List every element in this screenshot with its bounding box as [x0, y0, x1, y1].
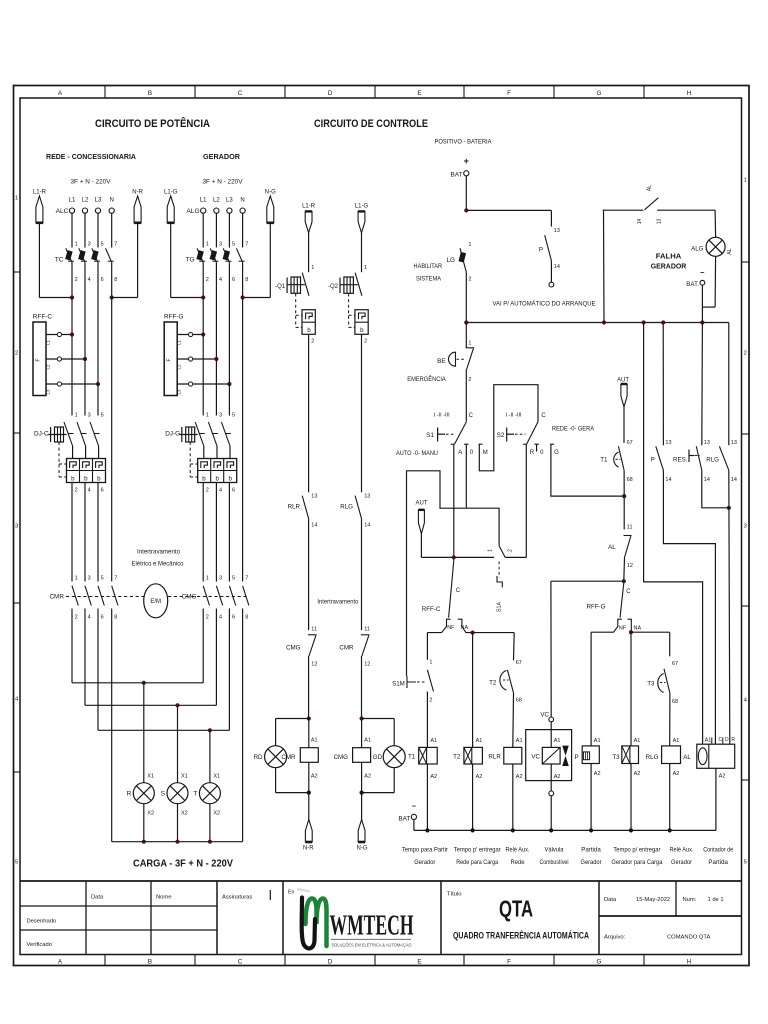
wire VC into box: [550, 722, 552, 748]
terminal on RFF-G tap L3: [189, 382, 193, 386]
svg-text:5: 5: [15, 859, 18, 865]
svg-text:L3: L3: [95, 198, 102, 204]
switch LG blade: [460, 248, 466, 272]
wire pole 1 below contactor: [71, 609, 73, 683]
svg-text:BAT: BAT: [398, 815, 410, 822]
selector S1 blade: [455, 422, 467, 444]
svg-text:VC: VC: [531, 754, 540, 761]
svg-text:2: 2: [15, 350, 18, 356]
svg-text:L2: L2: [46, 364, 51, 369]
wire to RD lamp top: [276, 718, 309, 720]
svg-text:14: 14: [665, 477, 671, 483]
wire S1M to T1 coil: [426, 692, 428, 748]
wire AL down: [623, 558, 626, 582]
junction main bus left: [464, 320, 468, 324]
svg-text:3: 3: [15, 523, 18, 529]
wire S1-A down: [453, 444, 455, 560]
junction lamp T neutral: [208, 840, 212, 844]
P inner hatch2: [587, 752, 589, 760]
svg-text:Rede: Rede: [511, 860, 526, 866]
svg-text:E/M: E/M: [150, 599, 161, 605]
coil T3: [622, 746, 639, 764]
svg-text:5: 5: [232, 242, 235, 248]
wire pole 2 below contactor: [215, 609, 217, 706]
svg-text:b: b: [97, 475, 101, 482]
junction rffg NA: [629, 630, 633, 634]
svg-text:Intertravamento: Intertravamento: [137, 550, 181, 556]
wire pole 1 down: [71, 262, 73, 297]
svg-text:1: 1: [488, 549, 494, 552]
wire P coil to bus: [590, 764, 592, 831]
DJ-C trip dash b: [59, 476, 67, 478]
svg-text:4: 4: [88, 615, 91, 621]
svg-text:2: 2: [744, 350, 747, 356]
svg-text:1: 1: [206, 242, 209, 248]
contact seat: [81, 260, 87, 262]
wire pole 3 below contactor: [228, 609, 230, 731]
wire RFF-G tap L1: [177, 334, 203, 336]
T1 X b: [419, 747, 427, 764]
control bus: [466, 322, 729, 324]
wire batminus falha down: [701, 285, 703, 322]
counter divider: [708, 744, 710, 768]
svg-text:S: S: [161, 791, 166, 798]
junction RFF-G tap L2: [214, 357, 218, 361]
svg-text:L1: L1: [69, 198, 76, 204]
svg-text:A1: A1: [705, 737, 712, 743]
footer column tick: [284, 955, 286, 966]
svg-text:3F + N - 220V: 3F + N - 220V: [71, 180, 111, 186]
relay RFF-G body: [164, 322, 177, 396]
wire pole 2 down: [84, 262, 86, 359]
wire N-R drop: [137, 223, 139, 298]
T2 timer arc: [500, 671, 507, 691]
assinaturas cursor mark: [269, 890, 271, 900]
terminal BAT- falha: [700, 280, 705, 285]
DJ-G pole 3 blade: [221, 422, 230, 446]
svg-text:C: C: [469, 413, 474, 419]
svg-text:REDE -0- GERA: REDE -0- GERA: [552, 427, 594, 433]
svg-text:G: G: [554, 450, 559, 456]
header column tick: [463, 86, 465, 99]
DJ-C actuator axis: [48, 434, 66, 436]
svg-text:12: 12: [627, 563, 633, 569]
wire N-G drop: [269, 223, 271, 298]
svg-text:L1-R: L1-R: [302, 204, 316, 210]
svg-text:13: 13: [554, 228, 560, 234]
T2 arc tick: [503, 679, 509, 681]
junction RLG negbus: [668, 828, 672, 832]
wire pole 1 down: [202, 262, 204, 297]
svg-text:5: 5: [232, 413, 235, 419]
svg-text:A2: A2: [311, 774, 318, 780]
svg-text:P: P: [575, 754, 579, 761]
wire RLR coil to bus: [512, 764, 514, 830]
wire pole 1 below contactor: [202, 609, 204, 683]
data num divider: [675, 881, 677, 916]
svg-text:AUT: AUT: [617, 378, 629, 384]
svg-text:BE: BE: [437, 358, 446, 365]
wire BAT+ down: [465, 176, 467, 210]
contactor CMG pole 4 blade: [243, 586, 249, 606]
svg-text:Relé Aux.: Relé Aux.: [506, 848, 530, 854]
BE mushroom head: [449, 352, 456, 366]
junction A-line bus557: [452, 555, 456, 559]
svg-text:A2: A2: [364, 774, 371, 780]
wire L1-G feed down: [361, 233, 363, 272]
footer column tick: [104, 955, 106, 966]
svg-text:5: 5: [232, 576, 235, 582]
wire falha left rise: [603, 210, 606, 322]
coil P partida: [582, 746, 599, 764]
wire AUT to bus557: [420, 534, 422, 558]
wire L2 down to switch: [215, 213, 217, 247]
S2 link dashes: [515, 433, 526, 435]
DJ-G actuator box: [186, 427, 195, 442]
T3 divider: [629, 746, 631, 764]
wire GD lamp to node: [362, 792, 395, 794]
feeder bus left: [171, 297, 204, 299]
wire falha top left: [603, 209, 644, 211]
wire P to counter C: [663, 470, 715, 744]
wire pole 3 below contactor: [97, 609, 99, 731]
junction phase T lamp: [208, 728, 212, 732]
svg-text:L2: L2: [177, 364, 182, 369]
wire lamp to node: [276, 792, 309, 794]
svg-text:R: R: [530, 450, 535, 456]
wire pole 3 to overload: [229, 446, 231, 459]
DJ-G trip dash b: [190, 476, 198, 478]
wire L1 down: [71, 298, 73, 335]
wire pole 1 down to contactor: [71, 483, 73, 582]
svg-text:6: 6: [101, 615, 104, 621]
svg-text:5: 5: [101, 576, 104, 582]
wire RFF-G tap L3: [177, 383, 229, 385]
svg-text:13: 13: [731, 440, 737, 446]
DJ-C trip dash a: [59, 463, 67, 465]
wire P to open terminal: [550, 261, 552, 282]
svg-text:15-May-2022: 15-May-2022: [636, 897, 670, 903]
contactor CMR pole 1 blade: [72, 586, 78, 606]
wire lamp S bottom: [177, 804, 179, 842]
svg-text:2: 2: [206, 277, 209, 283]
wire RFF-C tap L2: [46, 358, 85, 360]
svg-text:G: G: [597, 90, 602, 97]
S1 position A serif: [451, 443, 455, 445]
row tick right: [742, 605, 750, 607]
svg-text:FALHA: FALHA: [656, 251, 682, 260]
svg-text:SOLUÇÕES EM ELÉTRICA & AUTOMAÇ: SOLUÇÕES EM ELÉTRICA & AUTOMAÇÃO: [332, 943, 413, 948]
counter tick AC: [711, 738, 713, 745]
relay RFF-C body: [33, 322, 46, 396]
svg-text:H: H: [687, 958, 692, 965]
svg-text:Elétrico e Mecânico: Elétrico e Mecânico: [132, 562, 185, 568]
svg-text:ALC: ALC: [56, 208, 69, 215]
wire -Q1 to RLR contact: [308, 488, 310, 493]
svg-text:b: b: [71, 475, 75, 482]
-Q1 box bar1: [293, 277, 295, 293]
wire L1 down to switch: [71, 213, 73, 247]
row tick left: [14, 432, 21, 434]
S1M link dashes: [417, 681, 427, 683]
open terminal arranque: [549, 282, 554, 287]
wire NA rffg right: [631, 631, 670, 633]
svg-text:N-G: N-G: [357, 846, 368, 852]
junction CMR coil bottom: [307, 791, 311, 795]
wire falha lamp drop: [714, 210, 717, 237]
-Q2 actuator bar: [339, 278, 341, 294]
svg-text:1: 1: [468, 242, 471, 248]
svg-text:I -II -III: I -II -III: [506, 413, 522, 419]
-Q1 actuator axis: [287, 284, 305, 286]
T2 divider: [471, 747, 473, 764]
terminal VC bottom: [549, 791, 554, 796]
svg-text:L3: L3: [177, 389, 182, 394]
logo monogram black W: [302, 898, 315, 949]
svg-text:A2: A2: [554, 774, 561, 780]
wire pole 3 down to contactor: [97, 483, 99, 582]
feeder bus right: [112, 297, 138, 299]
footer column tick: [463, 955, 465, 966]
contact AL blade: [625, 536, 631, 557]
wire L3 below tap: [228, 384, 230, 416]
svg-text:1: 1: [744, 177, 747, 183]
svg-text:QTA: QTA: [499, 896, 533, 922]
svg-text:14: 14: [637, 219, 643, 225]
junction rffc NA: [471, 631, 475, 635]
svg-text:Verificado: Verificado: [27, 942, 52, 948]
wire L2 below tap: [215, 359, 217, 416]
junction L1/feeder: [201, 295, 205, 299]
RES knob: [688, 450, 690, 463]
indicator lamp ALG falha: [706, 237, 725, 256]
input terminal L2: [82, 208, 87, 213]
wire pole 4 below contactor: [242, 609, 244, 842]
wire P branch drop: [550, 210, 552, 226]
svg-text:Gerador: Gerador: [581, 860, 602, 866]
logo rule: [331, 938, 411, 940]
VC coil slash: [542, 747, 560, 764]
BE link dashes: [457, 358, 466, 360]
svg-text:8: 8: [245, 277, 248, 283]
svg-text:b: b: [360, 327, 364, 334]
DJ-G actuator bar: [181, 427, 183, 442]
svg-text:A1: A1: [516, 738, 523, 744]
svg-text:1: 1: [15, 195, 18, 201]
svg-text:CMR: CMR: [281, 754, 296, 761]
svg-text:2: 2: [508, 549, 514, 552]
svg-text:GERADOR: GERADOR: [203, 152, 240, 161]
S2 position R serif: [523, 443, 527, 445]
svg-text:BAT: BAT: [451, 171, 463, 178]
svg-text:AUT: AUT: [416, 501, 428, 507]
svg-text:G: G: [597, 958, 602, 965]
svg-text:P: P: [539, 247, 543, 254]
T1 X a: [419, 747, 427, 764]
svg-text:A2: A2: [516, 774, 523, 780]
coil CMR: [300, 748, 318, 763]
start flag AUT left: [418, 510, 424, 534]
junction bus falha: [602, 320, 606, 324]
svg-text:7: 7: [245, 242, 248, 248]
svg-text:8: 8: [245, 615, 248, 621]
junction lamp S neutral: [175, 840, 179, 844]
contactor CMG pole 3 blade: [229, 586, 235, 606]
svg-text:GD: GD: [373, 754, 383, 761]
S1 position 0 serif: [464, 443, 468, 445]
svg-text:F: F: [36, 358, 42, 361]
svg-text:X1: X1: [147, 774, 154, 780]
wire VC branch drop: [550, 581, 552, 717]
wire pole 3 down: [228, 262, 230, 384]
junction G line: [622, 494, 626, 498]
wire falha top right: [657, 209, 715, 211]
svg-text:A2: A2: [634, 771, 641, 777]
wire bus end to RLG contact: [728, 323, 730, 446]
wire S2-R down: [525, 444, 527, 557]
svg-text:Relé Aux.: Relé Aux.: [670, 848, 694, 854]
T3 X b: [622, 746, 630, 764]
-Q2 trip dashed: [348, 294, 350, 328]
junction lamp R neutral: [142, 840, 146, 844]
wire lamp R bottom: [143, 804, 145, 842]
wire RLG to CMR nc: [361, 519, 363, 630]
DJ-C pole 1 blade: [64, 422, 73, 446]
svg-text:2: 2: [311, 339, 314, 345]
svg-text:2: 2: [429, 698, 432, 704]
DJ-C pole 3 blade: [90, 422, 99, 446]
wire CMRnc to coil node: [361, 656, 363, 719]
svg-text:T3: T3: [647, 681, 655, 688]
svg-text:T1: T1: [600, 457, 608, 464]
input terminal L1: [69, 208, 74, 213]
svg-text:AL: AL: [647, 185, 653, 191]
title block divider x441: [440, 881, 442, 955]
wire NA down to T2 coil: [472, 633, 474, 748]
RES knob foot: [689, 455, 695, 457]
svg-text:68: 68: [516, 698, 522, 704]
wire to N-R flag: [308, 793, 310, 820]
svg-text:CIRCUITO DE POTÊNCIA: CIRCUITO DE POTÊNCIA: [95, 117, 210, 130]
svg-text:F: F: [507, 958, 511, 965]
svg-text:T: T: [193, 791, 197, 798]
wire T2 coil to bus: [472, 764, 474, 830]
RFF-G C blade: [620, 583, 624, 618]
junction bus RES branch: [700, 320, 704, 324]
svg-text:Tempo para Partir: Tempo para Partir: [402, 848, 448, 854]
svg-text:13: 13: [665, 440, 671, 446]
svg-text:A1: A1: [594, 738, 601, 744]
contact S1M blade: [427, 670, 433, 692]
svg-text:S1A: S1A: [497, 602, 503, 612]
title block row line 1: [20, 905, 217, 907]
svg-text:Desenhado: Desenhado: [27, 919, 57, 925]
svg-text:−: −: [700, 268, 705, 277]
svg-text:BAT.: BAT.: [686, 281, 699, 288]
DJ-C pole 2 blade: [77, 422, 86, 446]
S1A actuator: [497, 576, 502, 588]
wire L2 down to switch: [84, 213, 86, 247]
DJ-G actuator axis: [180, 434, 198, 436]
svg-text:L2: L2: [82, 198, 89, 204]
phase T bus: [98, 729, 229, 731]
svg-text:Gerador: Gerador: [414, 860, 435, 866]
svg-text:Nome: Nome: [156, 895, 171, 901]
svg-text:Data: Data: [91, 895, 104, 901]
contact RLR aux blade: [302, 496, 309, 520]
contact P blade: [656, 446, 664, 470]
svg-text:Data: Data: [604, 897, 617, 903]
contact seat: [94, 433, 100, 435]
svg-text:Contador de: Contador de: [703, 848, 734, 854]
wire RFF-G tap L2: [177, 358, 216, 360]
footer column tick: [194, 955, 196, 966]
svg-text:L1-R: L1-R: [33, 190, 47, 196]
indicator lamp RD: [265, 746, 287, 768]
title block divider x86: [85, 881, 87, 955]
junction P negbus: [589, 828, 593, 832]
svg-text:-Q1: -Q1: [275, 284, 286, 290]
wire pole 2 to overload: [216, 446, 218, 459]
junction RFF-G tap L1: [201, 332, 205, 336]
header column tick: [643, 86, 645, 99]
svg-text:Assinaturas: Assinaturas: [222, 895, 252, 901]
svg-text:CARGA - 3F + N - 220V: CARGA - 3F + N - 220V: [133, 859, 233, 870]
wire RLG down to counter R: [729, 470, 730, 744]
svg-text:A1: A1: [634, 738, 641, 744]
wire pole 2 to overload: [85, 446, 87, 459]
svg-text:14: 14: [554, 264, 560, 270]
switch TC pole 2 blade: [79, 248, 85, 262]
svg-text:b: b: [228, 475, 232, 482]
wire RD lamp drop: [275, 719, 277, 746]
wire pole 1 to overload: [72, 446, 74, 459]
wire N down to switch: [242, 213, 244, 247]
svg-text:X2: X2: [181, 811, 188, 817]
svg-text:GERADOR: GERADOR: [651, 262, 687, 271]
svg-text:68: 68: [672, 699, 678, 705]
wire bus to RES contact: [701, 323, 704, 446]
S2 position G serif: [550, 443, 554, 445]
junction CMG coil bottom: [360, 791, 364, 795]
wire VC branch horizontal: [551, 580, 624, 582]
S1 link dashes: [446, 433, 454, 435]
DJ-G pole 2 blade: [208, 422, 217, 446]
bus557 right: [505, 556, 526, 558]
contactor CMR pole 2 blade: [85, 586, 91, 606]
svg-text:1: 1: [468, 340, 471, 346]
wire BAT- drop: [413, 820, 415, 831]
svg-text:C: C: [456, 588, 461, 594]
svg-text:X1: X1: [181, 774, 188, 780]
svg-text:11: 11: [364, 626, 370, 632]
svg-text:AL: AL: [608, 544, 616, 551]
svg-text:L1: L1: [177, 340, 182, 345]
wire pole 2 down to contactor: [215, 483, 217, 582]
contact RES blade: [696, 446, 702, 470]
terminal on RFF-C tap L1: [57, 332, 61, 336]
svg-text:RES.: RES.: [673, 457, 688, 464]
switch TG pole 1 blade: [197, 248, 203, 262]
contact CMG interlock blade: [309, 635, 316, 656]
svg-text:1: 1: [75, 413, 78, 419]
overload div1: [79, 459, 81, 483]
wire -Q2 to RLG contact: [361, 488, 363, 493]
-Q2 trip dash b: [349, 326, 355, 328]
indicator lamp T: [199, 783, 220, 804]
contact seat: [212, 433, 218, 435]
header column tick: [553, 86, 555, 99]
